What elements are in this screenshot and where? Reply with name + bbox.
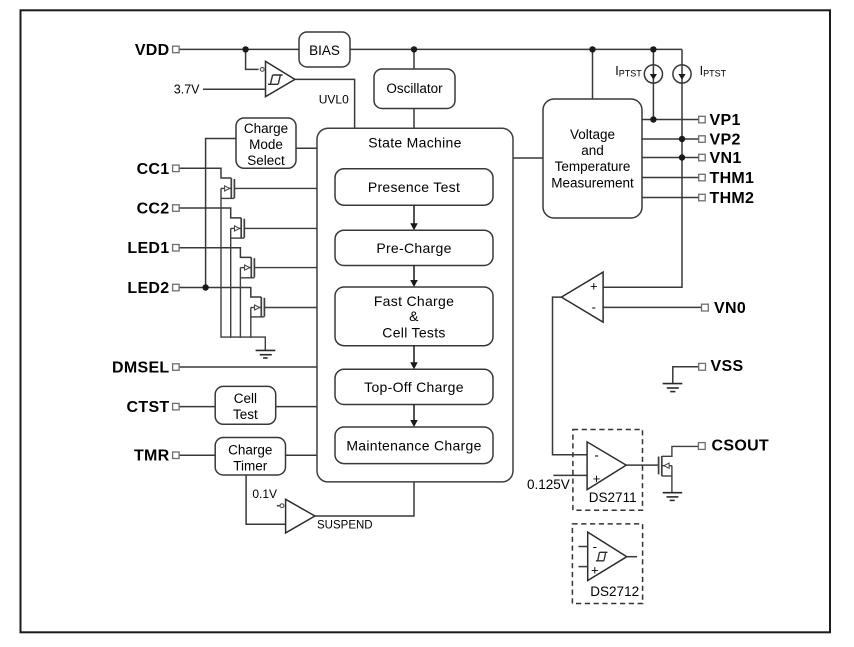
junction dot VDD-measurement <box>589 46 595 52</box>
wire CTST pin to cell test box <box>179 406 215 408</box>
wire oscillator to State Machine <box>413 109 415 129</box>
wire DMSEL pin to state machine <box>179 366 317 368</box>
op-amp U5 DS2712 hysteretic comparator <box>579 532 638 580</box>
svg-text:0.125V: 0.125V <box>527 477 570 492</box>
svg-text:Cell: Cell <box>234 391 257 406</box>
svg-text:THM1: THM1 <box>710 170 755 187</box>
pin VSS <box>699 358 744 375</box>
svg-text:State Machine: State Machine <box>368 135 461 151</box>
junction dot IPTST2-VP2 <box>679 136 685 142</box>
junction dot LED2 bus <box>202 284 208 290</box>
svg-text:LED2: LED2 <box>127 280 169 297</box>
svg-text:+: + <box>591 562 599 577</box>
svg-text:Timer: Timer <box>233 459 267 474</box>
wire 0.125V to DS2711 plus input <box>553 474 587 476</box>
svg-text:CTST: CTST <box>127 399 170 416</box>
svg-text:DMSEL: DMSEL <box>112 360 170 377</box>
wire VP2 from measurement box to pin <box>642 138 699 140</box>
svg-text:VN1: VN1 <box>710 150 742 167</box>
wire DS2711 output to CSOUT transistor gate <box>626 464 658 466</box>
svg-text:VP2: VP2 <box>710 132 741 149</box>
arrow pre-charge to fast charge <box>410 266 418 288</box>
wire suspend comparator output to state machine bottom <box>315 482 414 516</box>
op-amp U4 DS2711 current sense <box>587 442 626 490</box>
pin CSOUT <box>698 437 769 454</box>
svg-text:Cell Tests: Cell Tests <box>382 324 445 340</box>
wire charge timer to suspend comparator input <box>246 475 286 524</box>
svg-text:SUSPEND: SUSPEND <box>317 520 373 532</box>
transistor Q1 (CC1 switch) <box>221 178 317 338</box>
junction dot VDD-IPTST1 <box>650 46 656 52</box>
wire current source IPTST1 branch <box>652 49 654 119</box>
wire charge mode select to state machine <box>296 147 317 149</box>
wire UVLO output to State Machine top <box>295 79 355 128</box>
junction dot IPTST1-VP1 <box>650 116 656 122</box>
svg-text:Temperature: Temperature <box>555 159 631 174</box>
wire CC1 pin to transistor Q1 gate <box>179 168 231 178</box>
pin CC2 <box>137 201 180 218</box>
svg-text:Pre-Charge: Pre-Charge <box>376 240 451 256</box>
pin VDD <box>135 42 179 59</box>
junction dot VDD-oscillator <box>411 46 417 52</box>
voltage and temperature measurement box <box>543 99 642 218</box>
wire TMR pin to charge timer box <box>179 454 215 456</box>
cell test box <box>215 386 276 424</box>
pin DMSEL <box>112 360 179 377</box>
svg-text:0.1V: 0.1V <box>252 487 277 501</box>
op-amp U1 UVLO comparator <box>260 61 295 96</box>
svg-text:+: + <box>593 471 601 486</box>
svg-text:DS2711: DS2711 <box>589 490 637 505</box>
fast charge and cell tests box <box>335 287 493 346</box>
transistor Q5 CSOUT driver <box>659 446 699 492</box>
op-amp U3 cell voltage comparator <box>561 272 603 322</box>
pre-charge box <box>335 230 493 265</box>
svg-text:Measurement: Measurement <box>551 175 634 190</box>
svg-text:Select: Select <box>247 153 285 168</box>
state machine box <box>317 128 513 482</box>
DS2711 dashed box <box>573 430 643 511</box>
op-amp U2 suspend comparator <box>280 499 315 533</box>
pin VN0 <box>702 300 747 317</box>
arrow presence test to pre-charge <box>410 205 418 230</box>
ground symbol below CSOUT transistor <box>663 493 683 501</box>
charge timer box <box>215 438 285 476</box>
junction dot VDD-UVLO <box>242 46 248 52</box>
svg-text:+: + <box>590 278 598 293</box>
transistor Q2 (CC2 switch) <box>231 218 317 338</box>
wire charge mode select to LED2 bus <box>206 139 236 288</box>
svg-text:&: & <box>409 308 419 324</box>
wire LED1 pin to transistor Q3 gate <box>179 248 251 258</box>
pin LED1 <box>127 240 179 257</box>
svg-text:Mode: Mode <box>249 137 283 152</box>
svg-text:VSS: VSS <box>711 358 744 375</box>
svg-text:BIAS: BIAS <box>309 43 340 58</box>
pin LED2 <box>127 280 179 297</box>
ground symbol below transistors <box>256 350 276 358</box>
wire current source IPTST2 branch down to comparator plus input <box>603 49 682 287</box>
pin VP2 <box>699 132 741 149</box>
wire 3.7V input to UVLO comparator <box>203 88 266 90</box>
wire oscillator feed from rail <box>413 49 415 69</box>
pin THM1 <box>699 170 755 187</box>
svg-text:DS2712: DS2712 <box>590 584 639 599</box>
wire VDD main horizontal rail <box>179 48 682 50</box>
pin CC1 <box>137 161 180 178</box>
svg-text:VN0: VN0 <box>714 300 746 317</box>
svg-text:and: and <box>581 143 604 158</box>
junction dot VN1 sense <box>679 154 685 160</box>
svg-text:Charge: Charge <box>244 121 288 136</box>
wire comparator output down to DS2711 minus input <box>553 297 588 455</box>
wire state machine to voltage measurement <box>513 157 543 159</box>
wire THM1 from measurement box to pin <box>642 177 699 179</box>
transistor Q3 (LED1 switch) <box>240 257 317 337</box>
top-off charge box <box>335 369 493 404</box>
arrow fast charge to top-off charge <box>410 346 418 370</box>
arrow top-off charge to maintenance charge <box>410 405 418 428</box>
BIAS box <box>299 32 350 67</box>
wire voltage measurement feed from rail <box>592 49 594 99</box>
svg-text:-: - <box>594 447 598 462</box>
pin VP1 <box>699 112 741 129</box>
wire VSS pin to ground <box>673 367 699 384</box>
oscillator box <box>374 69 455 109</box>
svg-text:VDD: VDD <box>135 42 170 59</box>
wire 0.1V stub to suspend comparator bubble <box>277 505 280 507</box>
pin VN1 <box>699 150 742 167</box>
wire transistor source ground bus <box>221 337 265 350</box>
svg-text:VP1: VP1 <box>710 112 741 129</box>
charge mode select box <box>236 118 296 168</box>
svg-text:Voltage: Voltage <box>570 127 615 142</box>
current source IPTST2 <box>673 65 691 83</box>
svg-text:CC2: CC2 <box>137 201 170 218</box>
svg-text:Oscillator: Oscillator <box>386 81 443 96</box>
pin THM2 <box>699 190 755 207</box>
svg-text:Top-Off Charge: Top-Off Charge <box>364 379 464 395</box>
svg-text:THM2: THM2 <box>710 190 755 207</box>
pin TMR <box>134 448 179 465</box>
wire THM2 from measurement box to pin <box>642 197 699 199</box>
svg-text:Test: Test <box>233 407 258 422</box>
svg-text:Charge: Charge <box>228 443 272 458</box>
svg-text:TMR: TMR <box>134 448 170 465</box>
wire LED2 pin to transistor Q4 gate <box>179 288 261 298</box>
svg-text:CC1: CC1 <box>137 161 170 178</box>
wire CC2 pin to transistor Q2 gate <box>179 208 241 218</box>
svg-text:Maintenance Charge: Maintenance Charge <box>346 437 481 453</box>
wire VP1 from measurement box to pin <box>642 119 699 121</box>
svg-text:LED1: LED1 <box>127 240 169 257</box>
DS2712 dashed box <box>572 524 642 604</box>
wire UVLO comparator feed from VDD rail <box>246 49 259 69</box>
wire VN0 pin to comparator minus input <box>603 306 701 308</box>
svg-text:-: - <box>593 539 597 554</box>
svg-text:CSOUT: CSOUT <box>712 437 770 454</box>
maintenance charge box <box>335 427 493 464</box>
pin CTST <box>127 399 180 416</box>
current source IPTST1 <box>644 65 662 83</box>
svg-text:Presence Test: Presence Test <box>368 179 460 195</box>
ground symbol at VSS <box>663 384 683 392</box>
svg-text:UVL0: UVL0 <box>319 92 349 106</box>
presence test box <box>335 169 493 205</box>
svg-text:-: - <box>592 300 596 315</box>
wire charge timer box to state machine <box>286 454 318 456</box>
svg-text:Fast Charge: Fast Charge <box>374 293 454 309</box>
transistor Q4 (LED2 switch) <box>251 297 317 338</box>
wire cell test box to state machine <box>276 406 317 408</box>
svg-text:3.7V: 3.7V <box>174 82 200 96</box>
wire VN1 from measurement box to pin <box>642 157 699 159</box>
